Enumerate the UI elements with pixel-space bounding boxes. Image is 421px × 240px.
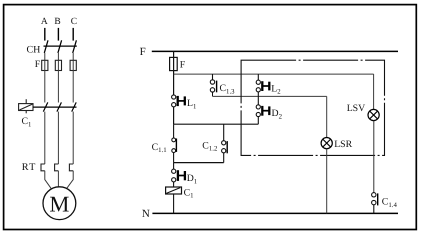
contact C1.3 <box>210 80 214 84</box>
wire C1.2-to-junction <box>223 153 225 163</box>
thermal relay RT heaters <box>41 164 73 171</box>
svg-text:A: A <box>41 17 48 27</box>
svg-text:RT: RT <box>22 162 37 173</box>
svg-text:CH: CH <box>27 44 41 55</box>
pushbutton L2 <box>256 80 260 84</box>
wire phase C top <box>72 28 74 41</box>
svg-text:LSR: LSR <box>334 139 352 150</box>
fuse F phase B <box>55 60 61 70</box>
enclosure box <box>241 60 384 155</box>
wire A RT-to-motor <box>45 171 51 189</box>
wire A fuse-to-contact <box>44 60 46 102</box>
wire B RT-to-motor <box>57 171 59 187</box>
wire phase A top <box>44 28 46 41</box>
wire lampline-to-LSR <box>326 96 328 137</box>
wire A CH-to-fuse <box>44 53 46 60</box>
fuse F phase A <box>42 60 48 70</box>
contact C1.4 <box>372 193 376 197</box>
svg-text:LSV: LSV <box>347 103 366 114</box>
svg-text:F: F <box>35 59 41 70</box>
wire C1.4-to-N <box>373 205 375 214</box>
svg-text:M: M <box>49 191 69 216</box>
wire fuse-to-L1 <box>173 74 175 95</box>
wire D1-to-coil <box>173 182 175 187</box>
wire C CH-to-fuse <box>72 53 74 60</box>
wire nodeB-to-C1.1 <box>173 124 175 138</box>
contact C1.2 <box>222 141 226 145</box>
wire coil-to-N <box>173 194 175 213</box>
wire C1.3-to-lamp-line <box>212 92 214 96</box>
wire C contact-to-RT <box>72 112 74 164</box>
wire LSV-to-C1.4 <box>373 121 375 193</box>
wire nodeA-to-C1.3 <box>212 74 214 80</box>
coil C1 <box>166 187 182 194</box>
wire nodeA-to-LSV <box>373 74 375 109</box>
svg-text:N: N <box>142 208 150 220</box>
contact C1.1 <box>172 138 176 142</box>
svg-text:B: B <box>54 17 60 27</box>
fuse F phase C <box>70 60 76 70</box>
wire C1.1-to-junction <box>173 153 175 163</box>
wire phase B top <box>57 28 59 41</box>
pushbutton L1 <box>172 95 176 99</box>
contactor C1 operator box <box>19 99 33 113</box>
wire L2-to-D2 <box>257 92 259 105</box>
wire D2-to-nodeB <box>257 117 259 125</box>
wire B fuse-to-contact <box>57 60 59 102</box>
wire B CH-to-fuse <box>57 53 59 60</box>
motor M <box>43 187 76 220</box>
svg-text:F: F <box>140 46 146 58</box>
pushbutton D1 <box>172 169 176 173</box>
contactor C1 main contacts <box>33 102 77 111</box>
svg-text:C: C <box>71 17 77 27</box>
wire nodeB-to-C1.2 <box>223 124 225 140</box>
node A horizontal wire <box>174 73 374 75</box>
junction wire C1.1/C1.2 <box>174 162 224 164</box>
fuse F control <box>173 57 175 74</box>
wire junction-to-D1 <box>173 163 175 170</box>
lamp LSV <box>368 109 379 120</box>
wire rail-to-fuse <box>173 51 175 57</box>
lamp feed horizontal wire <box>213 95 327 97</box>
lamp LSR <box>321 138 332 149</box>
wire C fuse-to-contact <box>72 60 74 102</box>
wire nodeA-to-L2 <box>257 74 259 80</box>
wire LSR-to-N <box>326 149 328 214</box>
wire L1-to-nodeB <box>173 107 175 124</box>
wire B contact-to-RT <box>57 112 59 164</box>
svg-text:F: F <box>180 60 186 71</box>
node B horizontal wire <box>174 123 259 125</box>
pushbutton D2 <box>256 105 260 109</box>
switch CH (3-pole knife switch) <box>44 40 77 53</box>
wire C RT-to-motor <box>67 171 74 189</box>
wire A contact-to-RT <box>44 112 46 164</box>
